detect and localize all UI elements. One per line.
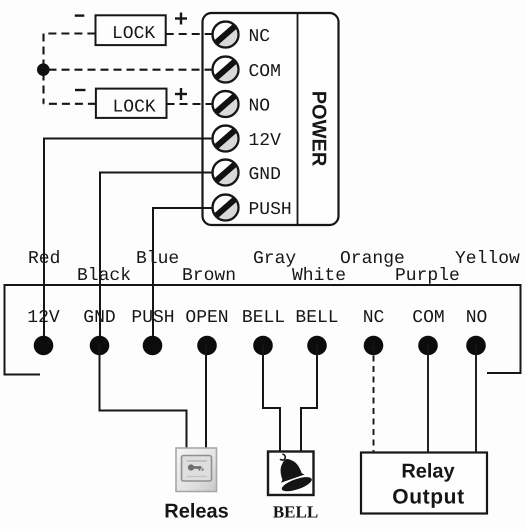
relay output box K1 [361,453,487,514]
wire BELL1 to bell [263,345,280,452]
screw terminal COM [213,57,281,83]
wire COM to junction (dashed) [44,69,213,71]
terminal dot NC [364,336,384,356]
lock LK2 [96,89,167,118]
svg-text:NO: NO [466,308,488,328]
svg-text:LOCK: LOCK [112,24,155,44]
svg-text:OPEN: OPEN [185,308,228,328]
lock LK1 [96,15,166,45]
svg-text:GND: GND [249,165,281,185]
polarity plus of LK2 [175,88,187,100]
svg-text:BELL: BELL [242,308,285,328]
screw terminal NO [213,91,271,117]
screw terminal 12V [213,126,282,152]
svg-text:NO: NO [249,97,271,117]
svg-text:NC: NC [249,27,271,47]
svg-text:GND: GND [83,308,115,328]
wire LK2 minus to left bus (dashed) [44,103,96,105]
terminal dot 12V [34,336,54,356]
svg-text:PUSH: PUSH [249,200,292,220]
wire BELL2 to bell [301,345,317,452]
wire 12V (red) [44,139,213,346]
svg-text:POWER: POWER [308,91,330,167]
svg-text:White: White [292,266,346,286]
svg-text:BELL: BELL [295,308,338,328]
svg-text:COM: COM [249,62,281,82]
polarity minus of LK2 [75,89,86,91]
terminal dot GND [90,336,110,356]
polarity plus of LK1 [175,13,187,25]
svg-text:12V: 12V [249,131,282,151]
wire PUSH (blue) [153,208,213,345]
screw terminal GND [213,160,281,186]
terminal dot BELL1 [253,336,273,356]
junction node A [37,63,50,76]
svg-text:Black: Black [77,266,131,286]
svg-text:Gray: Gray [253,249,296,269]
svg-text:LOCK: LOCK [113,98,156,118]
svg-text:BELL: BELL [273,503,318,522]
wire GND to release button [100,345,187,449]
svg-text:Releas: Releas [164,501,229,523]
wire NO to LK2 plus (dashed) [167,103,213,105]
wire LK1 minus to left bus (dashed) [44,32,96,34]
polarity minus of LK1 [75,14,85,16]
terminal dot OPEN [197,336,217,356]
svg-text:COM: COM [412,308,444,328]
release button S1 [176,448,217,492]
screw terminal PUSH [213,195,292,221]
terminal dot NO [466,336,486,356]
bell B1 [268,448,314,495]
svg-text:Brown: Brown [182,266,236,286]
terminal dot COM [418,336,438,356]
wire GND (black) [100,173,213,346]
terminal dot BELL2 [307,336,327,356]
svg-text:Relay: Relay [401,461,455,483]
screw terminal NC [213,22,271,48]
wire left bus vertical (dashed) [42,34,44,104]
svg-text:Yellow: Yellow [455,249,520,269]
controller terminal strip [5,285,521,375]
svg-text:Blue: Blue [136,249,179,269]
svg-text:PUSH: PUSH [131,308,174,328]
svg-text:12V: 12V [27,308,60,328]
wire COM to relay [427,345,429,452]
svg-text:Output: Output [392,486,464,509]
wire NC to relay (dashed) [373,345,375,452]
power terminal block U1 [203,13,339,225]
wire NC to LK1 plus (dashed) [166,33,213,35]
svg-text:Red: Red [28,249,60,269]
svg-text:NC: NC [363,308,385,328]
svg-text:Purple: Purple [395,266,460,286]
wire OPEN to release button [205,345,207,449]
wire NO to relay [475,345,477,452]
terminal dot PUSH [143,336,163,356]
